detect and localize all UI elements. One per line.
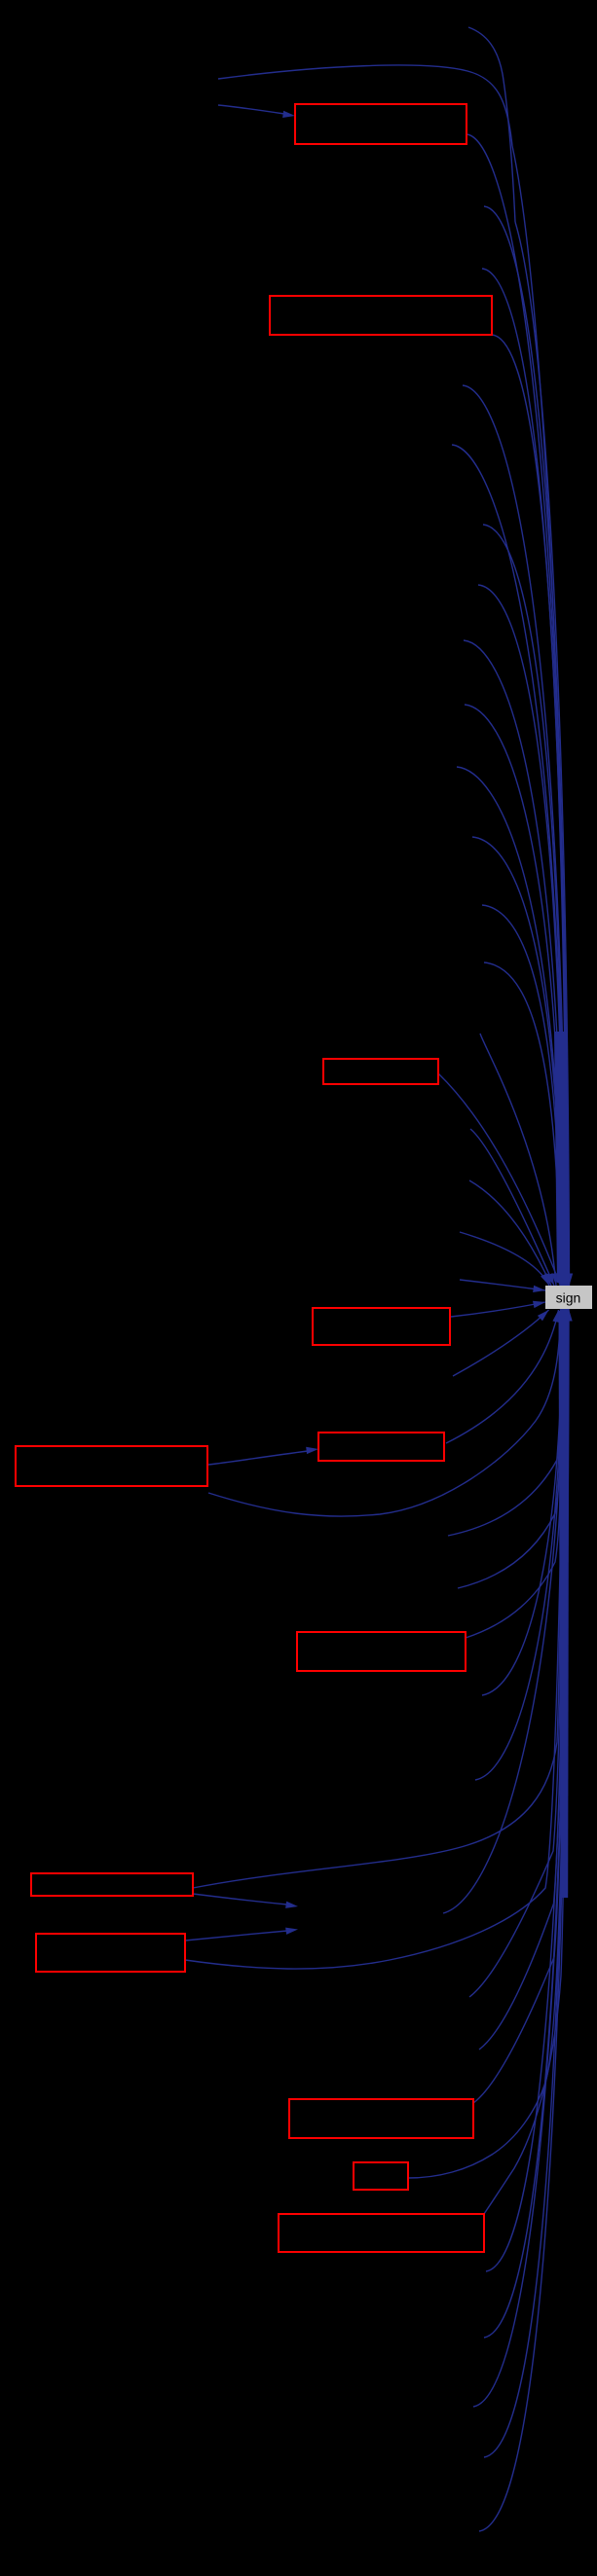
svg-text:sign: sign: [556, 1290, 581, 1306]
